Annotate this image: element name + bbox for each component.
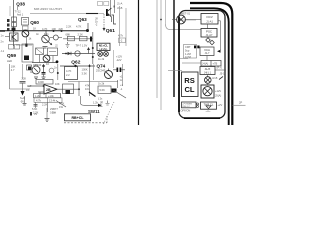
wire bundle line 2 (160, 0, 162, 110)
wire vertical (46, 108, 48, 118)
node junction dark (86, 29, 89, 32)
capacitor C32 tick (25, 44, 27, 47)
wire input - (38, 91, 44, 93)
svg-text:PSC: PSC (206, 29, 212, 33)
svg-text:J-1: J-1 (1, 49, 5, 53)
svg-text:1.2k: 1.2k (93, 101, 99, 105)
triangle in THR (206, 106, 211, 109)
svg-text:4.7K: 4.7K (76, 25, 82, 29)
wire dark end segment (0, 30, 5, 32)
diode D10 (68, 52, 72, 55)
svg-text:RS: RS (184, 76, 195, 85)
wire horizontal row (63, 38, 93, 40)
svg-text:Q74: Q74 (97, 64, 106, 69)
svg-text:+10k: +10k (48, 94, 54, 98)
capacitor C37 dark bars (117, 68, 119, 73)
wire bottom (32, 62, 58, 64)
box THR (201, 102, 217, 109)
svg-text:J1-A7: J1-A7 (206, 33, 213, 37)
svg-text:47K: 47K (85, 84, 90, 88)
svg-text:TP-7 1.5V: TP-7 1.5V (76, 44, 88, 48)
svg-text:68K: 68K (66, 33, 71, 37)
capacitor C30 bold bar (106, 9, 108, 16)
resistor R44 (36, 48, 44, 55)
svg-text:J5-1: J5-1 (220, 72, 226, 76)
svg-text:10n: 10n (85, 87, 90, 91)
svg-text:2.2: 2.2 (66, 73, 70, 77)
resistor R50 feedback (36, 80, 53, 85)
diagonal dark (89, 92, 96, 97)
wire vertical (47, 102, 49, 112)
wire hook (112, 15, 117, 24)
wire into panel left 2 (180, 58, 188, 60)
node (74, 65, 76, 67)
transistor Q42 (22, 44, 33, 62)
wire vertical (78, 82, 80, 97)
svg-text:SW11: SW11 (88, 109, 100, 114)
wire vertical (26, 37, 28, 47)
capacitor C33 dark bar (90, 37, 92, 42)
panel rounded rect (179, 11, 225, 119)
wire bundle thick (173, 0, 175, 97)
svg-text:Q63: Q63 (78, 17, 87, 22)
svg-text:5.6K: 5.6K (100, 88, 106, 92)
svg-text:VCA: VCA (204, 48, 210, 52)
svg-text:J5(A): J5(A) (215, 93, 221, 97)
svg-text:CMT: CMT (185, 45, 191, 49)
svg-text:MET-01: MET-01 (181, 12, 191, 16)
svg-text:2SC945: 2SC945 (96, 69, 106, 73)
box POWER (182, 102, 197, 108)
component box (98, 86, 111, 94)
dark blob (66, 90, 71, 94)
wire horizontal (60, 65, 95, 67)
svg-text:4.7: 4.7 (11, 68, 15, 72)
svg-text:47k: 47k (34, 64, 39, 68)
resistor R37 box (22, 18, 29, 26)
svg-text:Q38: Q38 (16, 2, 25, 7)
svg-text:4.7k: 4.7k (118, 34, 124, 38)
wire output (57, 88, 78, 90)
svg-text:2P: 2P (239, 101, 242, 105)
wire bus horizontal (0, 30, 88, 32)
wire Q63 drop (87, 23, 89, 31)
box RS CL (182, 72, 199, 97)
svg-text:OCV: OCV (206, 15, 213, 19)
wire vertical light 2 (125, 8, 127, 46)
svg-text:Q60: Q60 (30, 20, 39, 25)
svg-text:J1-B: J1-B (117, 6, 123, 10)
relay box K1 (65, 67, 78, 80)
svg-text:J1-7: J1-7 (205, 52, 210, 55)
arrow dark (98, 104, 102, 107)
svg-text:2.2K: 2.2K (42, 103, 48, 107)
transistor Q66 (32, 66, 40, 74)
wire vertical (22, 64, 24, 79)
diode D20 diamond (206, 38, 211, 43)
svg-text:+2V: +2V (218, 103, 223, 107)
resistor R41 (68, 36, 75, 41)
wire into panel left (168, 70, 182, 72)
box OCV (201, 14, 218, 25)
resistor R36 (12, 23, 17, 27)
wire long vertical divider (138, 0, 140, 125)
resistor R35 (12, 17, 17, 22)
wire vertical short (56, 101, 66, 108)
svg-text:0.1: 0.1 (26, 88, 30, 92)
svg-text:LEVEL: LEVEL (99, 47, 108, 51)
wide box J4 (201, 61, 221, 67)
svg-text:13.4k: 13.4k (49, 98, 56, 102)
switch contacts (197, 103, 199, 105)
resistor R101 top (98, 2, 103, 6)
box CMT (184, 45, 197, 59)
panel bottom dark (184, 117, 220, 119)
tick right (233, 104, 246, 106)
resistor R46 (27, 65, 32, 70)
ground (66, 42, 70, 47)
meter M1 crossed circle (177, 15, 186, 24)
diagonal wire (113, 90, 126, 98)
svg-text:4.7K: 4.7K (66, 69, 72, 73)
svg-text:+12V: +12V (215, 89, 221, 93)
lamp symbol (75, 51, 80, 56)
ground (43, 47, 48, 49)
svg-text:J1-A: J1-A (117, 2, 123, 6)
wire horizontal mid (62, 53, 95, 55)
svg-text:Q61: Q61 (106, 28, 115, 34)
lamp symbol (53, 35, 58, 40)
junction dots (43, 85, 45, 87)
box VCA (200, 47, 214, 56)
wire stub (5, 36, 10, 38)
wire dark segment (86, 13, 98, 15)
svg-text:J1-A1: J1-A1 (206, 19, 213, 23)
svg-text:OFF/ON: OFF/ON (181, 108, 191, 112)
capacitor C35 dark (28, 67, 31, 71)
svg-text:LED: LED (7, 59, 12, 63)
transistor Q65 body (43, 55, 50, 62)
inner enclosure corner (190, 8, 229, 125)
wire dashed with arrow (103, 14, 105, 28)
svg-text:+12V: +12V (116, 55, 122, 59)
arrow dark (21, 91, 25, 96)
wire vertical light (119, 6, 121, 46)
wire vertical (117, 80, 119, 88)
box AUX (200, 67, 215, 75)
small lamp below AUX (207, 75, 209, 77)
resistor R42 (80, 36, 88, 41)
dotted diagonal (103, 102, 114, 125)
svg-text:~v~: ~v~ (206, 109, 211, 113)
capacitor C31 dark (12, 28, 16, 32)
wire vertical with junction (114, 0, 116, 13)
svg-text:Q62: Q62 (71, 60, 80, 66)
wire bundle line 1 (156, 0, 158, 98)
potentiometer P2 (104, 52, 109, 57)
box PSC (201, 29, 217, 38)
component box (63, 84, 74, 94)
ground (23, 104, 27, 106)
resistor R45 (48, 48, 58, 56)
outer enclosure corner (190, 3, 232, 125)
svg-text:22K: 22K (22, 77, 27, 81)
tick small (219, 77, 223, 80)
svg-text:MIX ASSY CLUTCH: MIX ASSY CLUTCH (34, 7, 62, 11)
node junction (42, 65, 44, 67)
panel left edge dark (178, 17, 180, 112)
junction blob (107, 14, 109, 16)
svg-text:J4(-) 1: J4(-) 1 (204, 71, 212, 74)
svg-text:2B: 2B (46, 88, 51, 92)
wire (218, 20, 221, 22)
ground small (100, 104, 103, 107)
svg-text:5.6K: 5.6K (32, 107, 38, 111)
wire vertical mid (92, 32, 94, 64)
svg-text:SW-1 C: SW-1 C (182, 106, 190, 108)
svg-text:2.2K: 2.2K (66, 25, 72, 29)
wire (43, 64, 45, 72)
ground 2 (34, 77, 38, 78)
svg-text:1k 2k: 1k 2k (98, 57, 105, 61)
svg-text:-5V: -5V (20, 100, 24, 104)
svg-text:10K: 10K (11, 65, 16, 69)
svg-text:(2): (2) (100, 100, 103, 104)
svg-text:(P.+): (P.+) (217, 66, 222, 70)
wire bundle line 3 (165, 0, 167, 24)
svg-text:3V: 3V (34, 112, 37, 116)
svg-text:RB+CL: RB+CL (71, 116, 84, 120)
wire vertical (110, 0, 112, 16)
wire short vertical (9, 6, 11, 16)
tick marks above Q59 (9, 45, 14, 50)
black label box B+CL (65, 114, 91, 121)
svg-text:4.7K: 4.7K (59, 102, 65, 106)
wire bundle corner (166, 24, 202, 30)
svg-text:+7B: +7B (213, 61, 218, 65)
wire horizontal top (30, 13, 104, 15)
svg-text:CL: CL (184, 85, 194, 94)
tiny stack bottom-left (30, 112, 32, 116)
svg-text:2.2K: 2.2K (78, 33, 84, 37)
svg-text:1.2k: 1.2k (35, 94, 41, 98)
op-amp U2B (44, 85, 57, 95)
wire meter to box (185, 19, 201, 21)
wire into panel (176, 19, 196, 21)
wire vertical (89, 64, 91, 96)
svg-text:fwd 1: fwd 1 (17, 13, 24, 17)
svg-text:1W: 1W (59, 105, 63, 109)
wire vertical to arrow (80, 96, 82, 103)
svg-text:5up: 5up (185, 48, 190, 52)
svg-text:1k 2k: 1k 2k (98, 82, 105, 86)
diode D21 diamond (210, 40, 215, 45)
long thin box (34, 94, 61, 98)
label rotated MIC text (7, 19, 10, 22)
arrow tick (88, 48, 90, 54)
wire vertical small (24, 96, 26, 103)
wire out (215, 69, 226, 71)
transistor Q40 body (23, 26, 29, 30)
transistor Q74 body (105, 71, 113, 79)
dashed vertical (106, 116, 108, 123)
resistor R102 top (104, 2, 109, 6)
wire (39, 55, 41, 63)
node dot (56, 60, 59, 63)
junction dot (114, 6, 116, 8)
svg-text:10K: 10K (55, 82, 60, 86)
svg-text:Q59: Q59 (7, 53, 16, 59)
box J5 lamp (201, 85, 214, 98)
svg-text:{ 2x: { 2x (98, 97, 103, 101)
svg-text:-12V: -12V (116, 58, 122, 62)
wire input + (9, 64, 11, 89)
black label bar NIXIE (97, 43, 110, 50)
svg-text:4.7k: 4.7k (36, 98, 42, 102)
capacitor C38 (20, 82, 26, 84)
svg-text:2SB77: 2SB77 (50, 107, 58, 111)
dashed wire bottom (64, 122, 107, 124)
dark blob junction (112, 89, 117, 93)
dark bus marks (194, 46, 196, 49)
svg-text:J2-B: J2-B (212, 76, 218, 80)
transistor Q64 (45, 30, 47, 36)
wire vertical left bus (13, 0, 15, 46)
tiny labels (35, 102, 37, 108)
ground (42, 77, 46, 78)
ground (45, 119, 50, 122)
svg-text:3.3K: 3.3K (82, 72, 88, 76)
node junction (61, 30, 63, 32)
capacitor C36 (42, 73, 46, 75)
svg-text:J4(A): J4(A) (202, 61, 208, 65)
svg-text:100K: 100K (38, 80, 44, 84)
svg-text:1K: 1K (33, 27, 36, 31)
potentiometer P1 (98, 52, 103, 57)
wire down (39, 92, 41, 97)
transistor Q41 box (10, 33, 19, 41)
wire (52, 56, 54, 63)
svg-text:100K: 100K (82, 68, 88, 72)
wire long top (68, 81, 118, 83)
wire horizontal (16, 44, 32, 46)
